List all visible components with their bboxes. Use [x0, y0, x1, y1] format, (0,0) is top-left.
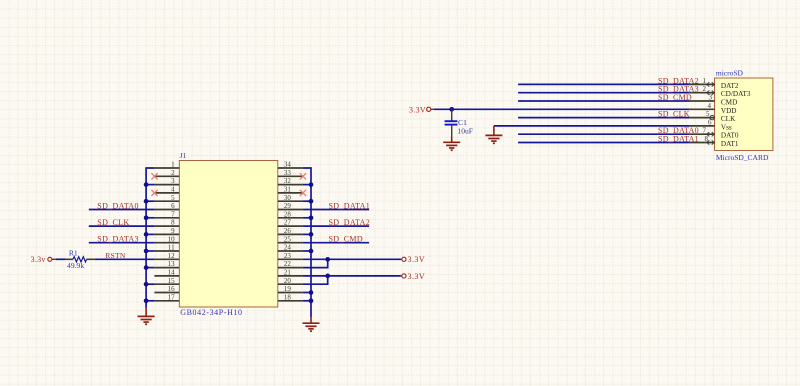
no-connect X pin 33	[300, 173, 306, 179]
J1 pin 12	[154, 252, 179, 260]
microSD pin 4 (VDD)	[690, 102, 737, 115]
no-connect X pin 2	[151, 173, 157, 179]
svg-text:16: 16	[168, 285, 176, 293]
microSD pin 2 (CD/DAT3)	[690, 85, 751, 98]
resistor R1	[66, 257, 95, 262]
J1 pin 8	[154, 219, 179, 227]
wire pin 19 to bus	[303, 292, 311, 294]
svg-text:24: 24	[284, 244, 292, 252]
J1 pin 19	[278, 285, 303, 293]
J1 pin 2	[154, 169, 179, 177]
J1 pin 17	[154, 293, 179, 301]
designator R1	[69, 248, 78, 257]
J1 pin 33	[278, 169, 303, 177]
J1 pin 22	[278, 260, 303, 268]
wire pin 15 to bus	[146, 283, 154, 285]
ground Vss	[485, 126, 502, 143]
wire pin 21 to 3.3V	[303, 275, 401, 277]
wire SD_CMD microSD	[518, 100, 690, 102]
svg-text:Vss: Vss	[721, 123, 732, 131]
wire SD_DATA2	[303, 225, 369, 227]
svg-text:21: 21	[284, 269, 292, 277]
svg-text:4: 4	[171, 186, 175, 194]
wire SD_DATA2 microSD	[518, 83, 690, 85]
junction pin 15	[144, 282, 149, 287]
wire pin 18 to bus	[303, 300, 311, 302]
svg-text:SD_DATA2: SD_DATA2	[329, 218, 371, 227]
J1 pin 16	[154, 285, 179, 293]
ground C1	[443, 137, 460, 150]
wire pin 17 to bus	[146, 300, 154, 302]
svg-text:10uF: 10uF	[457, 126, 473, 135]
junction pin 32	[309, 182, 314, 187]
svg-text:VDD: VDD	[721, 107, 737, 115]
svg-text:6: 6	[171, 202, 175, 210]
wire pin 3 to bus	[146, 184, 154, 186]
J1 pin 1	[154, 161, 179, 169]
ground J1 left	[138, 307, 155, 324]
net label SD_DATA2 microSD	[658, 76, 699, 85]
J1 pin 28	[278, 210, 303, 218]
svg-text:1: 1	[703, 77, 707, 85]
svg-text:MicroSD_CARD: MicroSD_CARD	[716, 153, 769, 162]
junction pin 7	[144, 215, 149, 220]
svg-text:CD/DAT3: CD/DAT3	[721, 90, 751, 98]
capacitor C1	[445, 109, 458, 137]
wire pin 9 to bus	[146, 233, 154, 235]
junction pin 19	[309, 290, 314, 295]
value GB042-34P-H10	[180, 308, 242, 317]
no-connect X pin 4	[151, 190, 157, 196]
microSD pin 8 (DAT1)	[690, 135, 739, 148]
wire SD_CMD	[303, 242, 369, 244]
svg-text:SD_DATA0: SD_DATA0	[97, 201, 139, 210]
value MicroSD_CARD	[716, 153, 769, 162]
J1 pin 24	[278, 244, 303, 252]
ground J1 right	[303, 317, 320, 331]
component MicroSD_CARD body	[715, 78, 773, 151]
microSD pin 1 (DAT2)	[690, 77, 739, 90]
svg-text:SD_CMD: SD_CMD	[658, 93, 692, 102]
J1 pin 10	[154, 235, 179, 243]
J1 pin 6	[154, 202, 179, 210]
net label RSTN	[105, 251, 126, 260]
microSD pin 6 (Vss)	[690, 118, 732, 131]
wire VDD 3.3V rail	[434, 108, 690, 110]
svg-text:SD_CMD: SD_CMD	[329, 235, 363, 244]
wire pin 22 jog	[303, 259, 328, 267]
svg-text:28: 28	[284, 210, 292, 218]
svg-text:25: 25	[284, 235, 292, 243]
svg-text:2: 2	[703, 85, 707, 93]
J1 pin 34	[278, 161, 303, 169]
J1 pin 21	[278, 269, 303, 277]
svg-text:18: 18	[284, 293, 292, 301]
svg-text:SD_CLK: SD_CLK	[658, 110, 690, 119]
net label SD_CLK	[97, 218, 129, 227]
svg-text:19: 19	[284, 285, 292, 293]
J1 pin 25	[278, 235, 303, 243]
wire pin 32 to bus	[303, 184, 311, 186]
J1 pin 7	[154, 210, 179, 218]
J1 pin 15	[154, 277, 179, 285]
svg-text:CMD: CMD	[721, 99, 737, 107]
power port 3.3V pin 23	[401, 255, 425, 264]
wire pin 30 to bus	[303, 200, 311, 202]
microSD pin 3 (CMD)	[690, 94, 738, 107]
wire pin 20 jog	[303, 276, 328, 284]
svg-text:DAT2: DAT2	[721, 82, 739, 90]
junction pin 3	[144, 182, 149, 187]
J1 pin 5	[154, 194, 179, 202]
svg-text:3.3V: 3.3V	[409, 105, 426, 114]
J1 pin 18	[278, 293, 303, 301]
svg-text:29: 29	[284, 202, 292, 210]
junction C1 tap	[449, 107, 454, 112]
net label SD_CMD	[329, 235, 363, 244]
junction pin 28	[309, 215, 314, 220]
svg-text:23: 23	[284, 252, 292, 260]
net label SD_CLK microSD	[658, 110, 690, 119]
svg-text:15: 15	[168, 277, 176, 285]
designator C1	[458, 118, 467, 127]
svg-text:DAT1: DAT1	[721, 140, 739, 148]
svg-text:12: 12	[168, 252, 176, 260]
wire pin 23 to 3.3V	[303, 258, 401, 260]
net label SD_DATA0 microSD	[658, 126, 699, 135]
wire RSTN	[95, 258, 155, 260]
J1 pin 26	[278, 227, 303, 235]
wire pin 13 to bus	[146, 267, 154, 269]
svg-text:14: 14	[168, 269, 176, 277]
designator J1	[180, 151, 187, 160]
svg-text:22: 22	[284, 260, 292, 268]
J1 pin 20	[278, 277, 303, 285]
svg-text:32: 32	[284, 177, 292, 185]
svg-text:33: 33	[284, 169, 292, 177]
J1 pin 30	[278, 194, 303, 202]
svg-text:26: 26	[284, 227, 292, 235]
svg-text:4: 4	[708, 102, 712, 110]
J1 pin 13	[154, 260, 179, 268]
svg-text:5: 5	[706, 110, 710, 118]
svg-text:30: 30	[284, 194, 292, 202]
wire SD_DATA0 microSD	[518, 133, 690, 135]
net label SD_CMD microSD	[658, 93, 692, 102]
junction jog pin 20	[325, 274, 330, 279]
J1 pin 4	[154, 186, 179, 194]
value 10uF	[457, 126, 473, 135]
junction pin 18	[309, 298, 314, 303]
svg-text:20: 20	[284, 277, 292, 285]
svg-text:GB042-34P-H10: GB042-34P-H10	[180, 308, 242, 317]
wire pin 7 to bus	[146, 217, 154, 219]
wire SD_DATA3 microSD	[518, 92, 690, 94]
svg-text:R1: R1	[69, 248, 78, 257]
J1 pin 27	[278, 219, 303, 227]
J1 pin 3	[154, 177, 179, 185]
junction pin 30	[309, 199, 314, 204]
J1 pin 29	[278, 202, 303, 210]
net label SD_DATA1	[329, 201, 371, 210]
wire SD_CLK	[89, 225, 155, 227]
svg-text:5: 5	[171, 194, 175, 202]
svg-text:1: 1	[171, 161, 175, 169]
wire left ground bus	[146, 168, 154, 307]
svg-text:RSTN: RSTN	[105, 251, 126, 260]
power port 3.3V top	[409, 105, 434, 114]
J1 pin 14	[154, 269, 179, 277]
junction pin 17	[144, 298, 149, 303]
svg-text:13: 13	[168, 260, 176, 268]
wire pin 28 to bus	[303, 217, 311, 219]
no-connect X pin 31	[300, 190, 306, 196]
svg-text:2: 2	[171, 169, 175, 177]
J1 pin 23	[278, 252, 303, 260]
svg-text:3: 3	[171, 177, 175, 185]
svg-text:9: 9	[171, 227, 175, 235]
wire pin 5 to bus	[146, 200, 154, 202]
junction pin 9	[144, 232, 149, 237]
wire 3.3v to R1	[56, 258, 66, 260]
wire SD_DATA1	[303, 209, 369, 211]
svg-text:31: 31	[284, 186, 292, 194]
svg-text:J1: J1	[180, 151, 187, 160]
svg-text:7: 7	[171, 210, 175, 218]
microSD pin 5 (CLK)	[690, 110, 736, 123]
wire SD_DATA3	[89, 242, 155, 244]
J1 pin 11	[154, 244, 179, 252]
connector J1 body	[179, 161, 277, 308]
net label SD_DATA3	[97, 235, 139, 244]
svg-text:3.3v: 3.3v	[31, 255, 46, 264]
wire pin 26 to bus	[303, 233, 311, 235]
microSD pin 7 (DAT0)	[690, 127, 739, 140]
J1 pin 9	[154, 227, 179, 235]
power port 3.3v	[31, 255, 56, 264]
junction pin 11	[144, 249, 149, 254]
designator microSD	[716, 69, 744, 78]
svg-text:CLK: CLK	[721, 115, 736, 123]
junction pin 26	[309, 232, 314, 237]
J1 pin 31	[278, 186, 303, 194]
value 49.9k	[67, 261, 84, 270]
wire right ground bus	[303, 168, 311, 317]
svg-text:SD_CLK: SD_CLK	[97, 218, 129, 227]
power port 3.3V pin 21	[401, 272, 425, 281]
junction pin 5	[144, 199, 149, 204]
junction pin 13	[144, 265, 149, 270]
svg-text:8: 8	[171, 219, 175, 227]
wire SD_DATA1 microSD	[518, 142, 690, 144]
svg-text:microSD: microSD	[716, 69, 744, 78]
svg-text:SD_DATA1: SD_DATA1	[329, 201, 371, 210]
junction jog pin 22	[325, 257, 330, 262]
svg-text:7: 7	[703, 127, 707, 135]
svg-text:3: 3	[709, 94, 713, 102]
svg-text:11: 11	[168, 244, 175, 252]
svg-text:17: 17	[168, 293, 176, 301]
svg-text:49.9k: 49.9k	[67, 261, 84, 270]
svg-text:3.3V: 3.3V	[408, 255, 426, 264]
junction pin 24	[309, 249, 314, 254]
svg-text:SD_DATA3: SD_DATA3	[97, 235, 139, 244]
svg-text:6: 6	[708, 118, 712, 126]
svg-text:27: 27	[284, 219, 292, 227]
wire pin 11 to bus	[146, 250, 154, 252]
svg-text:34: 34	[284, 161, 292, 169]
wire pin 24 to bus	[303, 250, 311, 252]
wire SD_CLK microSD	[518, 117, 690, 119]
net label SD_DATA1 microSD	[658, 135, 699, 144]
svg-text:3.3V: 3.3V	[408, 272, 426, 281]
net label SD_DATA3 microSD	[658, 85, 699, 94]
svg-text:10: 10	[168, 235, 176, 243]
svg-text:DAT0: DAT0	[721, 132, 739, 140]
J1 pin 32	[278, 177, 303, 185]
net label SD_DATA0	[97, 201, 139, 210]
wire SD_DATA0	[89, 209, 155, 211]
wire Vss	[494, 125, 690, 127]
net label SD_DATA2	[329, 218, 371, 227]
